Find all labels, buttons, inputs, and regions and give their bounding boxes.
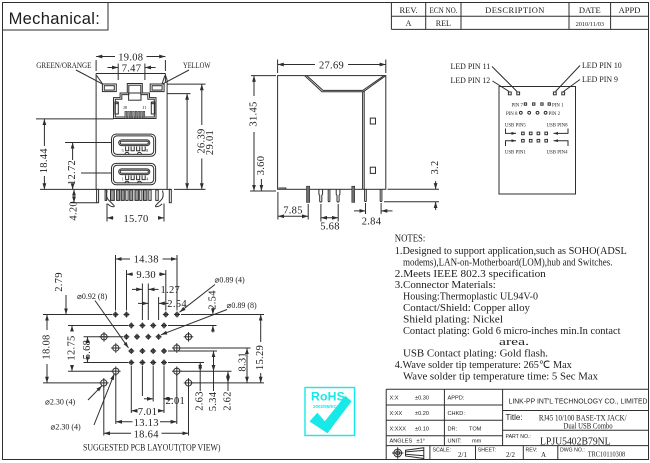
square hole upper [370, 118, 375, 124]
svg-text:Housing:Thermoplastic UL94V-0: Housing:Thermoplastic UL94V-0 [403, 292, 538, 303]
svg-text:⌀0.92 (8): ⌀0.92 (8) [77, 292, 107, 301]
svg-text:Contact plating: Gold 6 micro-: Contact plating: Gold 6 micro-inches min… [403, 326, 621, 337]
svg-text:1.27: 1.27 [161, 285, 181, 296]
corner diagonals to LED windows [97, 76, 103, 85]
front view [36, 52, 216, 225]
svg-text:ECN NO.: ECN NO. [430, 5, 458, 15]
svg-text:A: A [541, 451, 546, 459]
svg-text:2.01: 2.01 [166, 396, 186, 407]
svg-text:PIN 7: PIN 7 [511, 103, 523, 108]
dim 27.69 [277, 60, 279, 74]
right LED window [150, 84, 164, 92]
svg-text:18.64: 18.64 [134, 429, 160, 440]
RJ45 shell outline [114, 84, 157, 119]
svg-text:X:XXX: X:XXX [390, 427, 407, 433]
svg-text:USB Contact plating: Gold flas: USB Contact plating: Gold flash. [403, 349, 548, 360]
svg-text:A: A [406, 19, 412, 28]
dim 12.75 [71, 326, 73, 332]
row D holes [128, 348, 134, 354]
svg-text:2/2: 2/2 [506, 451, 515, 459]
mounting holes [99, 332, 109, 342]
dim 2.54 top [158, 297, 160, 320]
right ext lines [181, 314, 264, 316]
svg-text:SUGGESTED PCB LAYOUT(TOP VIEW): SUGGESTED PCB LAYOUT(TOP VIEW) [83, 443, 221, 454]
svg-text:3.Connector Materials:: 3.Connector Materials: [395, 280, 496, 291]
svg-text:PIN 8: PIN 8 [506, 112, 518, 117]
bottom-left tab [279, 188, 286, 189]
svg-text:REL: REL [436, 19, 451, 28]
dim 3.60 [260, 179, 262, 191]
svg-text:APPD:: APPD: [448, 396, 465, 402]
USB port 2 [112, 163, 156, 184]
svg-text:DESCRIPTION: DESCRIPTION [485, 5, 545, 15]
svg-text:8: 8 [146, 148, 148, 153]
dim 26.39 [186, 94, 188, 190]
svg-text:LINK-PP INT'L TECHNOLOGY CO.,: LINK-PP INT'L TECHNOLOGY CO., LIMITED [509, 397, 649, 406]
usb pads row 2 [522, 139, 548, 142]
dim 5.68 [320, 204, 322, 222]
svg-text:2.54: 2.54 [207, 290, 218, 310]
notes [395, 234, 627, 383]
svg-text:DR:: DR: [448, 427, 458, 433]
svg-text:2.Meets IEEE 802.3 specificati: 2.Meets IEEE 802.3 specification [395, 269, 546, 280]
Mechanical title box [3, 3, 109, 31]
svg-text:USB PIN1: USB PIN1 [505, 150, 527, 155]
svg-text:TOM: TOM [469, 427, 482, 433]
svg-text:4.20: 4.20 [69, 201, 80, 221]
svg-text:ANGLES: ANGLES [390, 439, 413, 445]
svg-text:18.08: 18.08 [42, 334, 53, 359]
svg-text:3.60: 3.60 [256, 156, 267, 176]
svg-text:⌀2.30 (4): ⌀2.30 (4) [51, 423, 81, 432]
svg-text:2.63: 2.63 [195, 391, 206, 411]
svg-text:2/1: 2/1 [458, 451, 467, 459]
svg-text:±0.20: ±0.20 [415, 411, 429, 417]
svg-text:19.08: 19.08 [118, 52, 143, 63]
dim 3.2 [388, 188, 440, 190]
svg-text:LED PIN 12: LED PIN 12 [451, 76, 491, 85]
svg-text:13.13: 13.13 [134, 418, 159, 429]
dim 2.01 [144, 398, 153, 400]
dim 4.20 [70, 202, 97, 204]
svg-text:4.Wave solder tip temperature:: 4.Wave solder tip temperature: 265℃ Max [395, 360, 572, 371]
svg-text:PIN 1: PIN 1 [552, 103, 564, 108]
dim 2.84 [365, 203, 367, 214]
svg-text:SCALE:: SCALE: [433, 448, 451, 454]
svg-text:⌀2.30 (4): ⌀2.30 (4) [45, 397, 75, 406]
svg-text:X:XX: X:XX [390, 411, 403, 417]
svg-text:2010/11/03: 2010/11/03 [576, 21, 604, 28]
bottom ext verticals [130, 366, 132, 413]
usb pads row 1 [522, 132, 548, 135]
dim 15.70 [106, 204, 108, 222]
dim 13.13 [116, 421, 133, 423]
svg-text:DATE: DATE [579, 5, 601, 15]
row C holes [123, 334, 129, 340]
svg-text:±1°: ±1° [417, 439, 425, 445]
svg-text:Contact/Shield: Copper alloy: Contact/Shield: Copper alloy [403, 303, 531, 314]
svg-text:⌀0.89 (4): ⌀0.89 (4) [215, 276, 245, 285]
svg-text:Wave solder tip temperature ti: Wave solder tip temperature time: 5 Sec … [403, 371, 598, 382]
dim 18.64 [104, 432, 131, 434]
svg-text:15.29: 15.29 [255, 345, 266, 370]
dim 14.38 [115, 255, 117, 311]
svg-text:31.45: 31.45 [249, 101, 260, 126]
svg-text:J1: J1 [143, 105, 147, 110]
dim 19.08 [96, 52, 165, 71]
dim 5.34 [213, 351, 215, 371]
vertical fold seam [362, 92, 364, 190]
svg-text:area.: area. [499, 337, 529, 348]
RJ45 latch inner [129, 93, 141, 100]
svg-text:Title:: Title: [506, 413, 523, 422]
svg-text:Mechanical:: Mechanical: [9, 9, 101, 28]
svg-text:REV:: REV: [526, 448, 538, 454]
svg-text:X:X: X:X [390, 396, 399, 402]
svg-text:modems),LAN-on-Motherboard(LOM: modems),LAN-on-Motherboard(LOM),hub and … [403, 257, 613, 268]
svg-text:±0.10: ±0.10 [415, 427, 429, 433]
rev table [391, 3, 648, 30]
svg-text:RoHS: RoHS [311, 390, 345, 404]
svg-text:14.38: 14.38 [134, 255, 159, 266]
svg-text:9.30: 9.30 [136, 270, 156, 281]
svg-text:2002/95/EC: 2002/95/EC [313, 404, 338, 409]
svg-text:USB PIN5: USB PIN5 [505, 123, 527, 128]
title block [386, 389, 648, 459]
svg-text:15.70: 15.70 [123, 214, 148, 225]
svg-text:12.75: 12.75 [67, 335, 78, 360]
svg-text:LED PIN 9: LED PIN 9 [582, 75, 618, 84]
svg-text:GREEN/ORANGE: GREEN/ORANGE [36, 60, 91, 70]
top fold chamfer [305, 76, 386, 92]
svg-text:5.68: 5.68 [320, 222, 340, 233]
shield hooks [107, 191, 115, 207]
svg-text:2.62: 2.62 [223, 391, 234, 411]
dim 2.62 [227, 371, 229, 383]
svg-text:YELLOW: YELLOW [183, 60, 211, 70]
svg-text:4: 4 [146, 177, 148, 182]
svg-text:2.79: 2.79 [54, 272, 65, 292]
svg-text:1: 1 [122, 177, 124, 182]
svg-text:DWG NO.:: DWG NO.: [560, 448, 585, 454]
left LED window [102, 84, 116, 92]
svg-text:PART NO.:: PART NO.: [506, 434, 531, 440]
svg-text:7.47: 7.47 [122, 63, 142, 74]
svg-text:TRC10110308: TRC10110308 [588, 449, 626, 458]
dim 18.44 [43, 119, 45, 146]
svg-text:LED PIN 11: LED PIN 11 [451, 62, 491, 71]
svg-text:UNIT:: UNIT: [448, 439, 462, 445]
dim 5.68 [87, 337, 89, 339]
legs [307, 186, 310, 202]
svg-text:±0.30: ±0.30 [415, 396, 429, 402]
square hole lower [370, 167, 375, 173]
pcb layout [42, 255, 267, 454]
body outline [96, 73, 165, 75]
svg-text:1.Designed to support applicat: 1.Designed to support application,such a… [395, 246, 627, 257]
led pin diagram [451, 61, 622, 194]
svg-text:27.69: 27.69 [319, 60, 344, 71]
svg-text:7.85: 7.85 [283, 205, 303, 216]
row A holes [113, 312, 119, 318]
legs below body [97, 189, 172, 206]
svg-text:12.72: 12.72 [67, 160, 78, 185]
dim 2.63 [199, 363, 201, 372]
svg-text:8.31: 8.31 [238, 352, 249, 372]
svg-text:Shield plating: Nickel: Shield plating: Nickel [403, 314, 503, 325]
left ext lines [43, 314, 112, 316]
dim 29.01 [201, 84, 203, 125]
svg-text:3.2: 3.2 [430, 160, 441, 174]
rohs logo [305, 388, 355, 436]
USB port 1 [112, 134, 156, 156]
dim 7.01 [131, 410, 136, 412]
dim 18.08 [46, 315, 48, 331]
dim 15.29 [260, 315, 262, 343]
dim 8.31 [246, 348, 248, 383]
RJ45 contacts [125, 111, 145, 118]
svg-text:LPJU5402B79NL: LPJU5402B79NL [540, 436, 611, 448]
svg-text:LED PIN 10: LED PIN 10 [582, 61, 622, 70]
dim 2.54 right [212, 308, 214, 315]
dim 9.30 [126, 270, 128, 311]
svg-text:⌀0.89 (8): ⌀0.89 (8) [227, 301, 257, 310]
svg-text:NOTES:: NOTES: [395, 234, 426, 245]
dim 12.72 [72, 143, 74, 161]
ext lines right [167, 83, 205, 85]
svg-text:Dual USB Combo: Dual USB Combo [564, 422, 613, 431]
dim 1.27 [141, 284, 143, 321]
svg-text:REV.: REV. [399, 5, 417, 15]
svg-text:2.84: 2.84 [362, 217, 382, 228]
svg-text:USB PIN4: USB PIN4 [547, 150, 569, 155]
svg-text:29.01: 29.01 [205, 130, 216, 155]
svg-text:SHEET:: SHEET: [478, 448, 496, 454]
svg-text:USB PIN8: USB PIN8 [547, 123, 569, 128]
led pin pads [508, 92, 564, 95]
svg-text:5.68: 5.68 [82, 340, 93, 360]
dim 7.47 [108, 63, 156, 80]
svg-text:5.34: 5.34 [208, 391, 219, 411]
svg-text:CHKD:: CHKD: [448, 411, 466, 417]
leaders [492, 67, 517, 92]
outline [278, 76, 386, 190]
dim 2.79 [65, 295, 67, 315]
svg-text:mm: mm [472, 439, 482, 445]
row B holes [128, 323, 134, 329]
RJ45 side slots [115, 102, 118, 114]
svg-text:APPD: APPD [619, 5, 641, 15]
dim 7.85 [277, 192, 279, 220]
projection symbol [394, 449, 402, 457]
ext lines left [36, 118, 114, 120]
dim 31.45 [251, 75, 276, 77]
svg-text:5: 5 [122, 148, 124, 153]
svg-text:PIN 2: PIN 2 [549, 112, 561, 117]
row E holes [128, 360, 134, 366]
svg-text:18.44: 18.44 [39, 148, 50, 174]
svg-text:7.01: 7.01 [138, 407, 158, 418]
side view [249, 60, 442, 233]
